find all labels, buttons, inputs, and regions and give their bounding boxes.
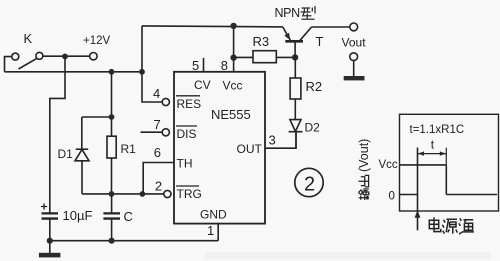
ground xyxy=(344,61,365,81)
svg-text:NPN: NPN xyxy=(275,6,301,20)
svg-text:4: 4 xyxy=(153,86,160,101)
pin 4 xyxy=(153,86,169,106)
svg-text:10µF: 10µF xyxy=(63,208,93,223)
svg-text:R3: R3 xyxy=(253,34,270,49)
pin 1 xyxy=(207,223,218,241)
pin 3 xyxy=(265,132,296,148)
junction xyxy=(62,54,68,60)
wire xyxy=(82,116,112,118)
svg-text:D1: D1 xyxy=(58,147,74,161)
wire xyxy=(111,72,113,136)
svg-text:R1: R1 xyxy=(121,142,137,156)
terminal +12V xyxy=(83,35,111,60)
svg-text:NE555: NE555 xyxy=(211,107,251,122)
wire TH xyxy=(143,163,174,194)
junction xyxy=(230,23,236,29)
diode D2 xyxy=(289,120,321,149)
junction xyxy=(109,191,115,197)
svg-text:2: 2 xyxy=(155,179,162,194)
svg-text:Vcc: Vcc xyxy=(223,78,243,92)
waveform trace xyxy=(400,148,498,231)
svg-text:T: T xyxy=(316,34,324,49)
svg-text:+12V: +12V xyxy=(83,35,111,47)
label circled 2 xyxy=(295,168,323,196)
wire xyxy=(142,26,162,102)
svg-text:2: 2 xyxy=(304,174,315,196)
wire +12V rail xyxy=(5,71,143,73)
svg-text:7: 7 xyxy=(154,117,161,132)
diode D1 xyxy=(58,117,90,194)
svg-text:8: 8 xyxy=(221,58,228,73)
svg-text:RES: RES xyxy=(177,97,202,111)
svg-text:Vcc: Vcc xyxy=(379,159,398,171)
svg-text:DIS: DIS xyxy=(177,127,197,141)
svg-text:1: 1 xyxy=(207,223,214,238)
resistor R1 xyxy=(107,136,136,194)
svg-text:D2: D2 xyxy=(305,121,321,135)
svg-text:Vout: Vout xyxy=(342,36,367,50)
wire ground rail xyxy=(50,240,218,242)
junction xyxy=(109,238,115,244)
dimension arrows xyxy=(418,148,447,165)
svg-text:OUT: OUT xyxy=(237,142,263,156)
svg-text:6: 6 xyxy=(154,145,161,160)
capacitor C xyxy=(103,194,132,241)
waveform box xyxy=(400,114,499,211)
junction xyxy=(140,191,146,197)
wire xyxy=(5,57,12,72)
junction xyxy=(230,54,236,60)
junction xyxy=(109,69,115,75)
svg-text:5: 5 xyxy=(192,58,199,73)
svg-text:TH: TH xyxy=(177,157,193,171)
label shuchu (Vout) rotated xyxy=(357,139,371,200)
ground xyxy=(39,241,61,258)
junction xyxy=(139,69,145,75)
terminal Vout xyxy=(342,23,367,61)
capacitor 10uF polarized xyxy=(41,203,92,240)
label power-on dianyuantong xyxy=(429,217,474,234)
svg-text:(Vout): (Vout) xyxy=(357,139,371,172)
pin 5 xyxy=(192,58,204,73)
wire node line xyxy=(82,193,164,195)
svg-text:C: C xyxy=(124,209,133,224)
junction xyxy=(292,54,298,60)
wire xyxy=(50,56,65,213)
op-amp U1 NE555 xyxy=(174,72,265,224)
resistor R2 xyxy=(290,57,322,119)
svg-text:K: K xyxy=(24,31,33,46)
resistor R3 xyxy=(234,34,296,63)
wire xyxy=(43,55,90,57)
junction xyxy=(109,114,115,120)
svg-text:t=1.1xR1C: t=1.1xR1C xyxy=(410,124,465,136)
pin 2 xyxy=(155,179,171,198)
svg-text:TRG: TRG xyxy=(177,187,202,201)
wire top rail xyxy=(142,26,283,27)
svg-text:CV: CV xyxy=(194,78,211,92)
label NPN type xyxy=(275,6,316,20)
transistor Q T xyxy=(283,27,324,57)
svg-text:GND: GND xyxy=(200,208,227,222)
svg-text:R2: R2 xyxy=(306,79,323,94)
pin 7 xyxy=(141,117,170,136)
svg-text:3: 3 xyxy=(269,132,276,147)
wire Vcc rail xyxy=(233,26,235,72)
switch K xyxy=(12,31,43,69)
junction xyxy=(47,238,53,244)
wire xyxy=(312,26,350,28)
svg-text:0: 0 xyxy=(389,191,395,203)
